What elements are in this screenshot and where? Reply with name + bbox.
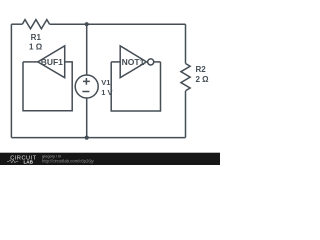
- svg-text:1 V: 1 V: [101, 88, 112, 97]
- svg-text:http://circuitlab.com/c6p26jy: http://circuitlab.com/c6p26jy: [42, 158, 95, 163]
- wire: right rail bottom: [185, 91, 187, 138]
- CircuitLab logo zigzag: [7, 160, 18, 163]
- voltage source V1: [75, 75, 98, 98]
- svg-text:NOT1: NOT1: [122, 57, 145, 67]
- svg-text:1 Ω: 1 Ω: [29, 43, 43, 52]
- junction dot bottom: [85, 136, 89, 140]
- wire: right rail top: [185, 24, 187, 63]
- svg-text:V1: V1: [101, 78, 110, 87]
- buffer U1 BUF1 triangle: [38, 46, 65, 78]
- wire: BUF1 output stub: [23, 61, 38, 63]
- resistor R2: [181, 64, 190, 91]
- V1 plus sign: [83, 78, 90, 85]
- NOT1 bubble: [148, 59, 154, 65]
- svg-text:BUF1: BUF1: [41, 57, 63, 67]
- wire: V1 top lead: [86, 24, 88, 75]
- svg-text:R1: R1: [31, 33, 42, 42]
- svg-text:R2: R2: [196, 65, 207, 74]
- resistor R1: [22, 20, 49, 29]
- wire: NOT1 input stub: [111, 61, 120, 63]
- V1 minus sign: [82, 91, 89, 93]
- wire: left rail: [10, 24, 12, 137]
- wire: NOT1 feedback loop: [111, 62, 160, 111]
- junction dot top: [85, 22, 89, 26]
- svg-text:2 Ω: 2 Ω: [196, 75, 210, 84]
- svg-text:LAB: LAB: [24, 159, 34, 164]
- wire: top rail left segment: [11, 23, 22, 25]
- wire: top rail right segment: [50, 23, 186, 25]
- wire: bottom rail: [11, 137, 185, 139]
- footer black bar: [0, 153, 220, 165]
- inverter U2 NOT1 triangle: [120, 46, 146, 78]
- wire: BUF1 feedback loop: [23, 62, 72, 111]
- wire: V1 bottom lead: [86, 98, 88, 138]
- wire: NOT1 output stub: [154, 61, 161, 63]
